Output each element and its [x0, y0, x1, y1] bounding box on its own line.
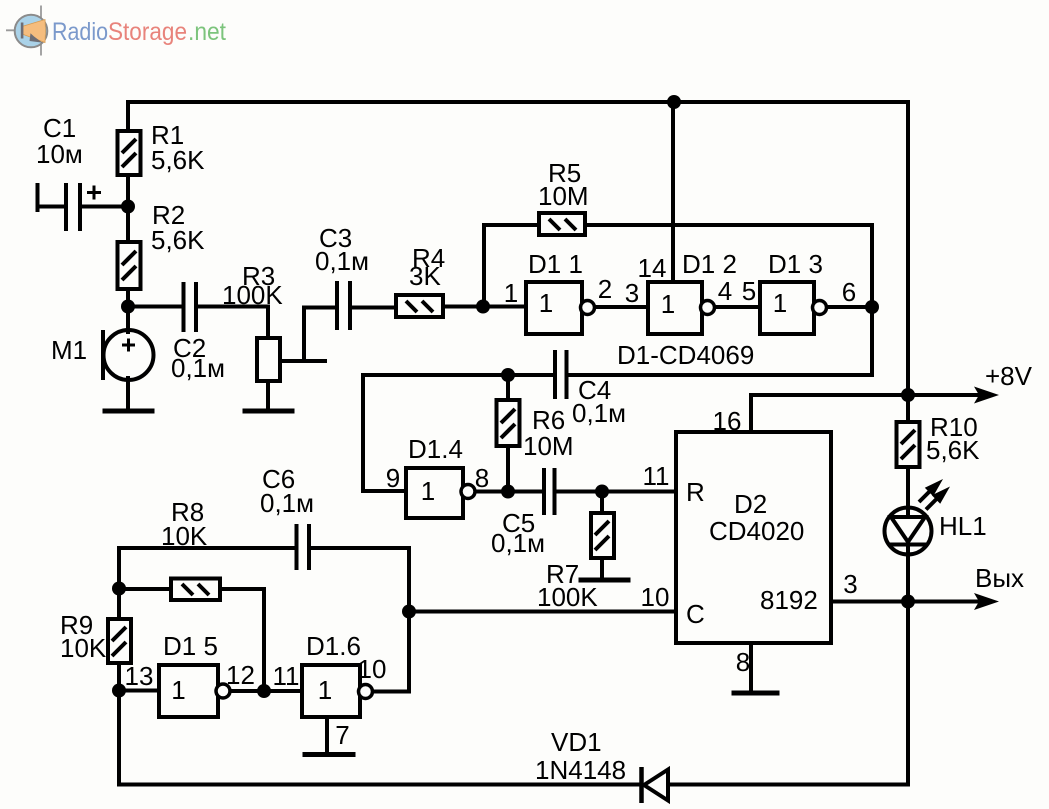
svg-text:1: 1 [171, 675, 185, 705]
svg-text:13: 13 [125, 661, 154, 691]
svg-text:0,1м: 0,1м [260, 488, 314, 518]
svg-text:2: 2 [598, 274, 612, 304]
svg-text:5: 5 [742, 276, 756, 306]
svg-text:0,1м: 0,1м [491, 528, 545, 558]
svg-text:10: 10 [358, 654, 387, 684]
svg-text:0,1м: 0,1м [315, 246, 369, 276]
svg-text:11: 11 [643, 461, 670, 491]
svg-text:1: 1 [773, 288, 787, 318]
svg-text:9: 9 [386, 463, 400, 493]
svg-text:10м: 10м [36, 139, 83, 169]
svg-text:D1-CD4069: D1-CD4069 [617, 340, 754, 370]
svg-text:12: 12 [226, 660, 255, 690]
svg-text:14: 14 [638, 253, 667, 283]
svg-text:1: 1 [539, 288, 553, 318]
svg-text:3K: 3K [409, 261, 441, 291]
svg-text:C: C [686, 599, 705, 629]
svg-text:4: 4 [718, 276, 732, 306]
svg-text:6: 6 [842, 277, 856, 307]
svg-text:8: 8 [475, 463, 489, 493]
svg-text:5,6K: 5,6K [151, 145, 205, 175]
svg-text:10M: 10M [523, 431, 574, 461]
svg-text:HL1: HL1 [939, 511, 987, 541]
svg-text:D1.4: D1.4 [408, 434, 463, 464]
svg-text:D1 2: D1 2 [682, 249, 737, 279]
svg-text:D1 5: D1 5 [163, 631, 218, 661]
svg-text:1: 1 [661, 289, 675, 319]
svg-text:0,1м: 0,1м [171, 353, 225, 383]
svg-text:8192: 8192 [760, 585, 818, 615]
svg-text:11: 11 [273, 661, 300, 691]
svg-text:1N4148: 1N4148 [535, 755, 626, 785]
svg-text:D1.6: D1.6 [306, 631, 361, 661]
svg-text:7: 7 [335, 720, 349, 750]
svg-text:.net: .net [188, 18, 226, 46]
svg-text:100K: 100K [222, 280, 283, 310]
svg-text:0,1м: 0,1м [572, 398, 626, 428]
svg-text:5,6K: 5,6K [926, 435, 980, 465]
svg-text:CD4020: CD4020 [709, 516, 804, 546]
svg-text:10: 10 [641, 582, 670, 612]
svg-text:10K: 10K [60, 633, 107, 663]
svg-text:10M: 10M [538, 181, 589, 211]
svg-text:D1 1: D1 1 [528, 249, 583, 279]
svg-text:5,6K: 5,6K [151, 225, 205, 255]
svg-text:8: 8 [736, 647, 750, 677]
svg-text:+8V: +8V [985, 361, 1033, 391]
svg-text:10K: 10K [161, 521, 208, 551]
svg-text:VD1: VD1 [551, 727, 602, 757]
svg-text:M1: M1 [51, 335, 87, 365]
svg-text:R: R [686, 477, 705, 507]
svg-text:Вых: Вых [975, 563, 1024, 593]
svg-text:3: 3 [843, 569, 857, 599]
svg-text:100K: 100K [537, 582, 598, 612]
svg-text:1: 1 [504, 278, 518, 308]
svg-text:Storage: Storage [108, 18, 187, 46]
svg-text:1: 1 [421, 476, 435, 506]
svg-text:D2: D2 [734, 489, 767, 519]
svg-text:1: 1 [318, 675, 332, 705]
svg-text:16: 16 [713, 406, 742, 436]
svg-text:Radio: Radio [52, 18, 108, 46]
svg-text:D1 3: D1 3 [768, 249, 823, 279]
